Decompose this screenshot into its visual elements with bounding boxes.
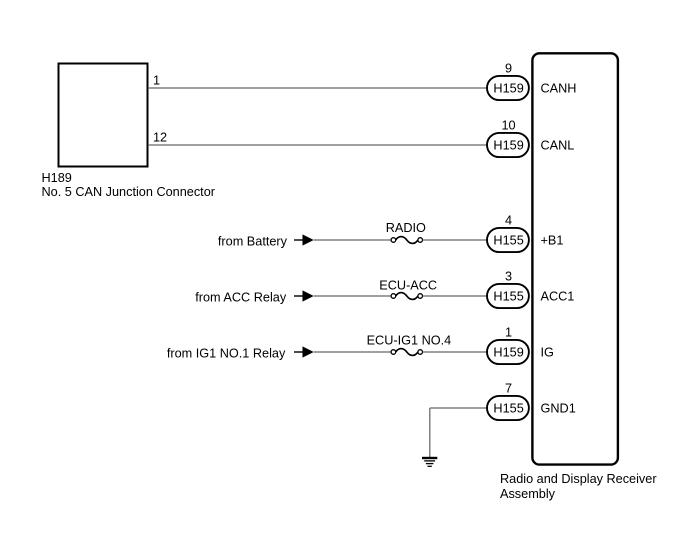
pin name CANL <box>541 139 575 153</box>
svg-text:3: 3 <box>505 269 512 283</box>
svg-text:H155: H155 <box>493 290 523 304</box>
svg-text:Radio and Display Receiver: Radio and Display Receiver <box>500 472 657 486</box>
pin name CANH <box>541 82 577 96</box>
connector H189 box <box>59 64 148 167</box>
pin number 1 <box>505 325 512 339</box>
wire CANH (H189 pin 1 to H159 pin 9) <box>148 87 488 89</box>
svg-text:from Battery: from Battery <box>218 235 288 249</box>
svg-text:7: 7 <box>505 381 512 395</box>
svg-text:from ACC Relay: from ACC Relay <box>195 291 287 305</box>
svg-text:RADIO: RADIO <box>386 221 426 235</box>
svg-text:IG: IG <box>541 346 554 360</box>
svg-text:from IG1 NO.1 Relay: from IG1 NO.1 Relay <box>167 347 286 361</box>
svg-text:ECU-IG1 NO.4: ECU-IG1 NO.4 <box>367 333 452 347</box>
pin number 1 (H189) <box>153 73 160 87</box>
svg-text:9: 9 <box>505 61 512 75</box>
pin number 4 <box>505 213 512 227</box>
label ECU-ACC <box>379 278 437 292</box>
wire arrow to fuse ECU-IG1 NO.4 <box>314 351 391 353</box>
connector pill H159 pin 9 <box>487 76 529 100</box>
label RADIO <box>386 221 426 235</box>
fuse ECU-ACC <box>391 293 422 300</box>
wire fuse RADIO to H155 pin 4 <box>423 239 488 241</box>
label No. 5 CAN Junction Connector <box>42 185 216 199</box>
svg-text:H159: H159 <box>493 82 523 96</box>
wire fuse ECU-IG1 NO.4 to H159 pin 1 <box>423 351 488 353</box>
svg-text:CANH: CANH <box>541 82 577 96</box>
connector pill H159 pin 10 <box>487 133 529 157</box>
svg-text:CANL: CANL <box>541 139 575 153</box>
ground <box>422 458 437 466</box>
label ECU-IG1 NO.4 <box>367 333 452 347</box>
arrow from IG1 NO.1 Relay <box>294 346 314 357</box>
svg-text:12: 12 <box>153 130 167 144</box>
fuse ECU-IG1 NO.4 <box>391 349 422 356</box>
connector pill H155 pin 7 <box>487 396 529 420</box>
pin number 10 <box>501 118 515 132</box>
pin number 12 (H189) <box>153 130 167 144</box>
svg-text:H189: H189 <box>42 171 72 185</box>
svg-text:No. 5 CAN Junction Connector: No. 5 CAN Junction Connector <box>42 185 216 199</box>
svg-text:ACC1: ACC1 <box>541 290 575 304</box>
svg-text:H159: H159 <box>493 346 523 360</box>
connector pill H159 pin 1 <box>487 340 529 364</box>
label from Battery <box>218 235 288 249</box>
pin number 9 <box>505 61 512 75</box>
wire CANL (H189 pin 12 to H159 pin 10) <box>148 144 488 146</box>
svg-text:4: 4 <box>505 213 512 227</box>
svg-text:ECU-ACC: ECU-ACC <box>379 278 437 292</box>
pin number 3 <box>505 269 512 283</box>
svg-text:1: 1 <box>505 325 512 339</box>
svg-text:+B1: +B1 <box>541 234 564 248</box>
svg-text:10: 10 <box>501 118 515 132</box>
wire arrow to fuse RADIO <box>314 239 391 241</box>
svg-text:Assembly: Assembly <box>500 487 556 501</box>
pin number 7 <box>505 381 512 395</box>
arrow from Battery <box>294 234 314 245</box>
pin name GND1 <box>541 402 576 416</box>
wire fuse ECU-ACC to H155 pin 3 <box>423 295 488 297</box>
svg-text:GND1: GND1 <box>541 402 576 416</box>
pin name +B1 <box>541 234 564 248</box>
Radio and Display Receiver Assembly body <box>532 53 618 464</box>
label Radio and Display Receiver <box>500 472 657 486</box>
fuse RADIO <box>391 237 422 244</box>
label Assembly <box>500 487 556 501</box>
connector pill H155 pin 3 <box>487 284 529 308</box>
label from ACC Relay <box>195 291 287 305</box>
arrow from ACC Relay <box>294 290 314 301</box>
svg-text:H155: H155 <box>493 402 523 416</box>
connector pill H155 pin 4 <box>487 228 529 252</box>
pin name ACC1 <box>541 290 575 304</box>
wire GND1 vertical <box>429 408 431 457</box>
wire GND1 horizontal <box>430 407 488 409</box>
wire arrow to fuse ECU-ACC <box>314 295 391 297</box>
label H189 <box>42 171 72 185</box>
svg-text:H159: H159 <box>493 139 523 153</box>
svg-text:H155: H155 <box>493 234 523 248</box>
label from IG1 NO.1 Relay <box>167 347 286 361</box>
svg-text:1: 1 <box>153 73 160 87</box>
pin name IG <box>541 346 554 360</box>
